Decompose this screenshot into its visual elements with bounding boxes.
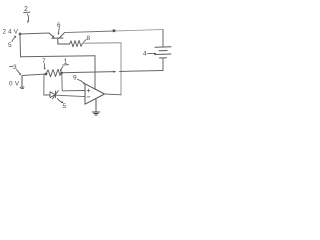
wire: R7 node down to op-amp plus input: [62, 73, 85, 91]
junction blob on bottom rail: [113, 71, 116, 73]
wire: 24V branch horizontal to op-amp supply: [21, 56, 96, 57]
label 3 (underlined) with leader to 0V terminal: [10, 64, 22, 75]
resistor R7 zigzag: [46, 69, 62, 77]
label 8 with leader: [84, 35, 91, 42]
label 5 with leader to 24V node: [8, 35, 16, 49]
svg-text:9: 9: [73, 75, 77, 82]
transistor Q (PNP pass transistor): [49, 33, 65, 44]
collector slant: [60, 33, 65, 38]
emitter slant with arrow: [49, 33, 53, 37]
svg-text:24V: 24V: [3, 29, 21, 36]
label 5 (zener) with leader: [58, 99, 67, 111]
battery B1 plates: [155, 47, 171, 58]
junction dot right of R7: [60, 72, 63, 75]
svg-text:5: 5: [63, 103, 67, 110]
node: 24V terminal dot: [19, 33, 22, 36]
op-amp - mark: [87, 96, 90, 98]
wire: zener to op-amp minus input: [56, 95, 86, 96]
label 7 with leader: [42, 58, 46, 70]
label 9 with leader to op-amp: [73, 75, 85, 85]
wire: base to resistor R8: [58, 43, 70, 45]
wire: 0V to resistor R7: [22, 74, 46, 76]
svg-text:4: 4: [143, 51, 147, 58]
label 4 with arrow to battery: [143, 51, 157, 58]
base bar: [52, 37, 63, 39]
zener diode D1: [50, 91, 58, 99]
wire: 24V drop vertical: [19, 34, 22, 57]
wire: 24V node to transistor emitter: [20, 33, 49, 34]
junction dot left of R7: [45, 73, 48, 76]
wire: battery bottom lead down: [162, 58, 164, 71]
wire: R8 to right vertical: [83, 42, 122, 44]
svg-text:0V: 0V: [9, 81, 22, 88]
op-amp U1 triangle: [85, 84, 105, 104]
svg-text:8: 8: [87, 35, 91, 42]
label 2 (underlined) with leader to 24V terminal: [24, 6, 31, 23]
wire: op-amp output: [105, 93, 122, 96]
op-amp + mark: [87, 89, 90, 92]
0V terminal lead + blob: [21, 76, 23, 88]
resistor R8 zigzag: [70, 40, 83, 46]
label 1 (underlined) with leader to node: [60, 59, 69, 72]
svg-text:5: 5: [8, 42, 12, 49]
ground symbol: [93, 112, 100, 115]
wire: collector to battery top (top rail): [65, 31, 115, 33]
wire: battery top lead down: [162, 30, 164, 47]
base lead down: [57, 38, 59, 44]
wire: feedback vertical x=121: [120, 43, 122, 95]
label 6 with leader arrow to transistor: [57, 22, 61, 35]
wire: bottom rail (battery to resistor R7): [120, 70, 164, 73]
wire: op-amp supply vertical: [94, 56, 96, 90]
node dot on top rail: [113, 29, 116, 32]
wire: op-amp ground lead: [95, 100, 97, 113]
wire: branch down to zener: [44, 74, 50, 95]
